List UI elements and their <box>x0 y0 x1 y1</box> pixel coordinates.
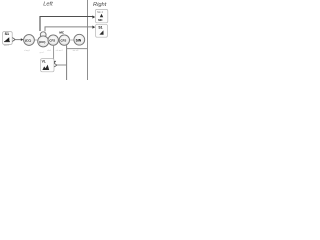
svg-text:CFS: CFS <box>49 39 55 43</box>
arrowhead into circle A <box>21 38 24 41</box>
gear pair B big circle <box>38 36 49 47</box>
label under circle D <box>56 50 64 52</box>
circle E (SIN) <box>74 34 85 45</box>
svg-text:VL: VL <box>42 59 46 63</box>
wire VL output to vertical wire <box>57 64 67 66</box>
wire A to B <box>34 39 37 41</box>
block S1 (source, left) <box>3 32 13 47</box>
gear pair B small circle <box>40 32 46 38</box>
label MC above circle D <box>59 31 64 35</box>
circle D (CFS) <box>59 35 69 45</box>
block R1 (top right) <box>95 9 107 22</box>
svg-text:(CC): (CC) <box>39 40 45 44</box>
svg-text:wav1: wav1 <box>4 45 10 47</box>
svg-text:Left: Left <box>43 2 53 8</box>
svg-text:cl my1: cl my1 <box>24 50 31 52</box>
wire: gear pair B to block R1 (dark top wire) <box>40 17 93 32</box>
arrowhead into VL top port <box>51 61 56 65</box>
circle C (CFS) <box>48 35 58 45</box>
boundary line between Left and Right areas <box>87 0 89 80</box>
wire S1 to circle A <box>15 39 21 41</box>
label under circle A <box>24 50 31 52</box>
S1 output port chevron <box>12 38 15 42</box>
wire: circle C down to block VL <box>53 45 55 61</box>
svg-text:S1: S1 <box>98 26 102 30</box>
svg-text:cfs mc2: cfs mc2 <box>56 50 64 52</box>
svg-text:CFS: CFS <box>61 39 67 43</box>
label under circle E <box>73 50 80 52</box>
wire D to E <box>69 39 74 41</box>
block VL (scope, bottom) <box>41 59 54 72</box>
svg-text:S1: S1 <box>5 32 9 36</box>
VL output port chevron <box>54 63 57 67</box>
arrowhead into R2 <box>92 26 95 29</box>
svg-text:SIN: SIN <box>76 38 82 42</box>
label under gear pair B <box>40 51 45 54</box>
svg-text:Right: Right <box>93 2 107 8</box>
wire: junction to boundary <box>67 48 88 50</box>
svg-text:(CC): (CC) <box>25 38 31 42</box>
svg-text:sin m1: sin m1 <box>73 50 80 52</box>
arrowhead into R1 <box>92 15 95 18</box>
circle A (CC) <box>24 35 35 46</box>
wire: circle D down to bottom edge <box>66 45 68 80</box>
svg-text:MC: MC <box>98 18 102 22</box>
label under circle C <box>47 50 52 52</box>
svg-text:Nm 2: Nm 2 <box>97 11 103 14</box>
block R2 (right, second) <box>96 24 108 37</box>
wire: gear pair B top to block R2 <box>45 27 93 31</box>
